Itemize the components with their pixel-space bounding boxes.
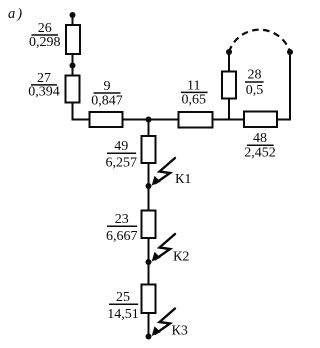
svg-text:23: 23 <box>115 212 129 227</box>
svg-text:6,257: 6,257 <box>106 155 138 170</box>
svg-text:11: 11 <box>187 78 200 93</box>
svg-text:28: 28 <box>248 68 262 83</box>
svg-text:К1: К1 <box>175 172 191 187</box>
svg-text:48: 48 <box>253 131 267 146</box>
svg-text:2,452: 2,452 <box>244 145 276 160</box>
svg-text:0,298: 0,298 <box>29 35 61 50</box>
svg-text:0,847: 0,847 <box>91 93 123 108</box>
svg-text:14,51: 14,51 <box>107 307 139 322</box>
svg-text:0,5: 0,5 <box>246 83 264 98</box>
svg-text:К3: К3 <box>172 324 188 339</box>
svg-text:9: 9 <box>104 79 111 94</box>
svg-text:25: 25 <box>116 290 130 305</box>
svg-text:а): а) <box>8 6 24 22</box>
svg-text:0,394: 0,394 <box>28 85 60 100</box>
svg-text:49: 49 <box>114 139 128 154</box>
svg-text:0,65: 0,65 <box>182 92 207 107</box>
svg-text:6,667: 6,667 <box>106 229 138 244</box>
svg-text:26: 26 <box>38 21 52 36</box>
svg-text:К2: К2 <box>173 249 189 264</box>
